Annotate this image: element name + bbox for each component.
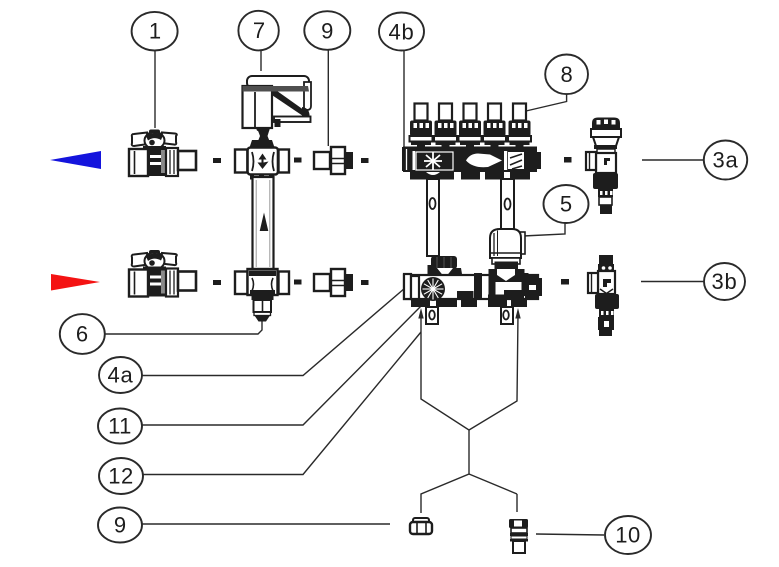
svg-text:3a: 3a [712, 148, 738, 173]
svg-text:10: 10 [615, 523, 640, 548]
svg-text:9: 9 [114, 513, 126, 538]
svg-text:1: 1 [149, 19, 161, 44]
svg-text:4b: 4b [388, 20, 414, 45]
svg-text:3b: 3b [711, 269, 737, 294]
svg-text:5: 5 [560, 192, 572, 217]
svg-text:6: 6 [76, 322, 88, 347]
svg-text:12: 12 [108, 464, 133, 489]
svg-text:11: 11 [108, 414, 132, 439]
svg-text:7: 7 [253, 18, 265, 43]
svg-text:9: 9 [321, 19, 333, 44]
svg-text:4a: 4a [107, 363, 133, 388]
svg-text:8: 8 [560, 62, 572, 87]
